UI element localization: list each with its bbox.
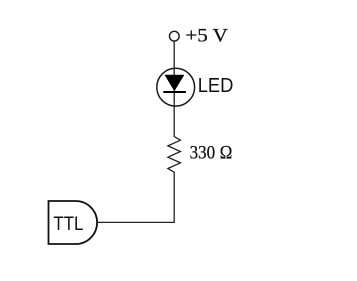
svg-text:LED: LED (198, 75, 234, 97)
svg-text:+5 V: +5 V (185, 26, 228, 47)
svg-text:330 Ω: 330 Ω (190, 143, 233, 164)
svg-text:TTL: TTL (53, 214, 83, 235)
